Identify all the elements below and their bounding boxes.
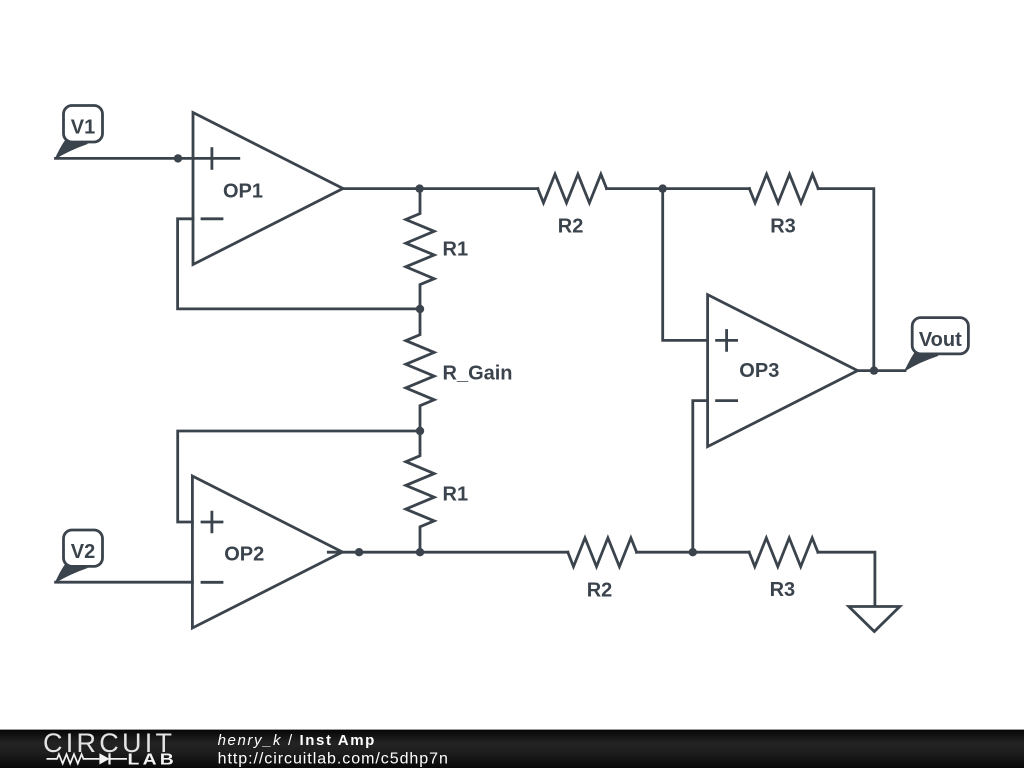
- resistor R1 (lower): [406, 431, 434, 552]
- resistor R3 (bottom): [749, 538, 818, 567]
- flag V1: [56, 106, 103, 159]
- svg-text:OP3: OP3: [739, 360, 779, 382]
- resistor R1 (upper): [406, 189, 434, 309]
- node E junction dot (R1 lower / bottom wire): [416, 548, 424, 556]
- flag V2: [56, 530, 103, 582]
- svg-text:V1: V1: [71, 117, 95, 139]
- svg-text:R2: R2: [558, 215, 584, 237]
- footer URL text: [218, 751, 449, 768]
- OP1 label: [223, 180, 263, 202]
- svg-text:R3: R3: [770, 579, 796, 601]
- flag Vout: [905, 318, 968, 371]
- svg-text:R_Gain: R_Gain: [443, 363, 513, 385]
- OP3 minus marker: [717, 399, 737, 402]
- wire OP3 inverting pin to node F: [693, 401, 708, 553]
- resistor R_Gain: [406, 309, 434, 431]
- node G junction dot (OP3 out / R3 / Vout): [870, 366, 878, 374]
- OP2 label: [224, 544, 264, 566]
- svg-text:R1: R1: [443, 239, 469, 261]
- node A junction dot (OP1 out / R1 / R2): [415, 184, 423, 192]
- resistor R2 (bottom): [568, 538, 637, 567]
- svg-text:R2: R2: [587, 579, 613, 601]
- OP2 minus marker: [202, 581, 222, 584]
- R1 lower label: [443, 483, 469, 505]
- OP3 label: [739, 360, 779, 382]
- wire R3 bottom to ground: [818, 552, 875, 605]
- R3 bottom label: [770, 579, 796, 601]
- ground symbol: [849, 607, 900, 632]
- R_Gain label: [443, 363, 513, 385]
- resistor R3 (top): [749, 174, 818, 203]
- CircuitLab logo resistor-diode glyph: [47, 753, 128, 764]
- wire R3 top to Vout node: [818, 189, 874, 371]
- node C junction dot (R2 / R3 / OP3+): [659, 184, 667, 192]
- wire OP3 output to Vout flag: [858, 369, 905, 372]
- wire node C to OP3 non-inverting pin: [663, 189, 708, 341]
- svg-text:V2: V2: [71, 541, 95, 563]
- R2 bottom label: [587, 579, 613, 601]
- OP1 minus marker: [202, 217, 222, 220]
- CircuitLab logo wordmark CIRCUIT: [43, 728, 175, 758]
- op-amp U OP2 triangle: [192, 476, 342, 628]
- wire R2 to R3 (top): [607, 187, 750, 190]
- svg-text:http://circuitlab.com/c5dhp7n: http://circuitlab.com/c5dhp7n: [218, 751, 449, 768]
- svg-text:henry_k / Inst Amp: henry_k / Inst Amp: [218, 732, 376, 749]
- svg-text:R3: R3: [770, 215, 796, 237]
- footer bar: [0, 730, 1024, 768]
- wire OP2 output to R2 bottom: [328, 551, 568, 554]
- svg-text:OP2: OP2: [224, 544, 264, 566]
- node junction dot on V1 wire: [174, 154, 182, 162]
- OP3 plus marker: [717, 331, 737, 351]
- op-amp U OP3 triangle: [708, 295, 858, 447]
- wire OP1 inverting feedback loop to node B: [178, 219, 420, 309]
- OP2 output terminal dot: [355, 548, 363, 556]
- wire V1 input to OP1 non-inverting pin: [56, 157, 239, 160]
- R1 upper label: [443, 239, 469, 261]
- svg-text:LAB: LAB: [128, 750, 178, 768]
- R2 top label: [558, 215, 584, 237]
- op-amp U OP1 triangle: [193, 113, 343, 265]
- footer author / title text: [218, 732, 376, 749]
- wire R2 bottom to R3 bottom: [637, 551, 750, 554]
- wire OP1 output to R2: [343, 187, 538, 190]
- R3 top label: [770, 215, 796, 237]
- resistor R2 (top): [538, 174, 607, 203]
- svg-text:Vout: Vout: [919, 329, 962, 351]
- node B junction dot (R1 / R_Gain / OP1 feedback): [416, 305, 424, 313]
- wire OP2 non-inverting feedback loop to node D: [178, 431, 420, 522]
- node D junction dot (R_Gain / R1 lower / OP2 feedback): [416, 427, 424, 435]
- node F junction dot (R2 / R3 / OP3-): [689, 548, 697, 556]
- svg-text:OP1: OP1: [223, 180, 263, 202]
- svg-text:R1: R1: [443, 483, 469, 505]
- wire V2 input to OP2 inverting pin: [56, 581, 193, 584]
- CircuitLab logo wordmark LAB: [128, 750, 178, 768]
- OP2 plus marker: [202, 512, 222, 532]
- OP1 plus marker (vertical bar of +): [210, 149, 213, 169]
